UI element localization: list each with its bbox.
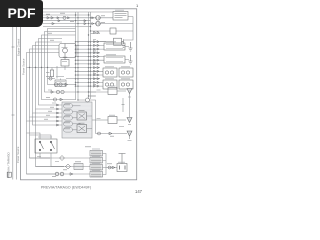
wire W-B drop mid xyxy=(122,98,124,112)
wire collector right of SB xyxy=(103,154,118,175)
caption xyxy=(41,185,91,189)
connector pair row84 xyxy=(54,83,67,86)
svg-text:Power Source: Power Source xyxy=(16,146,20,163)
wire ECM internal xyxy=(73,106,93,130)
fuse AM2 label xyxy=(56,76,64,78)
connector D on W-B xyxy=(98,132,113,135)
connector row92 xyxy=(51,90,64,93)
sensor block row3 xyxy=(103,68,133,77)
power source label top xyxy=(22,58,26,75)
section marker E xyxy=(7,152,12,178)
ECM block xyxy=(62,102,92,138)
svg-text:Engine Control: Engine Control xyxy=(16,38,20,56)
label on W-B drop xyxy=(122,104,125,106)
striped box SB3 xyxy=(90,165,103,171)
noise filter box with ground xyxy=(100,38,125,47)
connector D battery row xyxy=(108,166,115,169)
junction dots main row xyxy=(29,67,48,68)
component labels right column xyxy=(92,42,130,171)
shielded connector T3 xyxy=(127,131,132,139)
connector circle row78 xyxy=(49,77,52,80)
wire right ladder rows xyxy=(76,17,134,97)
connector row99 xyxy=(53,98,62,101)
wire long verticals to bottom xyxy=(27,109,65,174)
wire bottom rows xyxy=(27,153,91,174)
svg-text:Power Source: Power Source xyxy=(22,58,26,75)
striped box SB4 xyxy=(90,172,103,178)
svg-text:PREVIA / TARAGO: PREVIA / TARAGO xyxy=(7,152,11,178)
fuse box AM2 xyxy=(55,80,66,87)
EFI main relay box D xyxy=(35,139,57,153)
left margin rules xyxy=(13,27,17,180)
sensor block row4 xyxy=(103,80,133,89)
igniter coil 2 xyxy=(96,21,101,26)
PDF badge xyxy=(0,0,43,27)
ground G1 xyxy=(129,42,133,51)
misc tiny text labels xyxy=(37,13,131,176)
connector pair row174 xyxy=(55,172,64,176)
wire solenoid drop xyxy=(57,66,65,79)
main relay circle xyxy=(86,98,90,102)
striped box SB2 xyxy=(90,158,103,164)
igniter coil 1 xyxy=(96,15,101,20)
svg-text:147: 147 xyxy=(135,189,143,194)
connector diamond row158 xyxy=(60,156,65,161)
injector no1 box xyxy=(104,43,125,50)
ECM relay contacts xyxy=(77,112,87,133)
connector D row174 xyxy=(70,173,73,176)
check connector box xyxy=(110,28,116,34)
ground G2 xyxy=(129,55,133,64)
solenoid E xyxy=(61,57,69,66)
fusible link box row166 xyxy=(74,164,83,170)
page number 147 xyxy=(135,189,143,194)
label W-B xyxy=(128,140,132,142)
label relay D xyxy=(38,136,52,138)
engine control label xyxy=(16,38,20,56)
fusible link MAIN xyxy=(46,70,54,77)
wire top bus xyxy=(43,12,113,27)
border frame xyxy=(21,9,137,180)
wire relay to WB xyxy=(78,92,108,134)
striped box SB1 xyxy=(90,149,103,156)
EFI relay box A xyxy=(59,44,76,58)
wire vertical bus xyxy=(76,12,91,100)
connector pairs coil rows xyxy=(92,17,94,25)
shielded connector T1 xyxy=(127,89,132,118)
wire nested corner stair left xyxy=(27,29,91,122)
connector chevrons ECU rows xyxy=(57,104,59,126)
power source label bottom xyxy=(16,146,20,163)
connector pairs ladder xyxy=(94,31,100,87)
wire fuse row xyxy=(48,79,76,81)
wire relay D top feeds xyxy=(27,133,52,139)
compressor box xyxy=(92,117,126,124)
left margin ticks xyxy=(12,47,15,115)
battery B1 xyxy=(117,154,127,172)
svg-text:PREVIA/TARAGO (EWD449F): PREVIA/TARAGO (EWD449F) xyxy=(41,185,91,189)
label distributor xyxy=(115,9,124,11)
wire main feed row xyxy=(27,68,76,71)
injector no2 box xyxy=(104,56,125,63)
AC amplifier box xyxy=(108,88,126,95)
wire row W-B xyxy=(96,133,128,135)
connector diamond row166 xyxy=(66,164,71,169)
connector symbols top bus xyxy=(47,16,86,25)
svg-text:1: 1 xyxy=(136,3,139,8)
shielded connector T2 xyxy=(127,118,132,123)
page column marker 1 xyxy=(136,3,139,8)
distributor block xyxy=(113,12,128,21)
junction dots xyxy=(75,14,92,100)
ECM gate shapes xyxy=(64,104,73,133)
label AC xyxy=(109,85,116,87)
